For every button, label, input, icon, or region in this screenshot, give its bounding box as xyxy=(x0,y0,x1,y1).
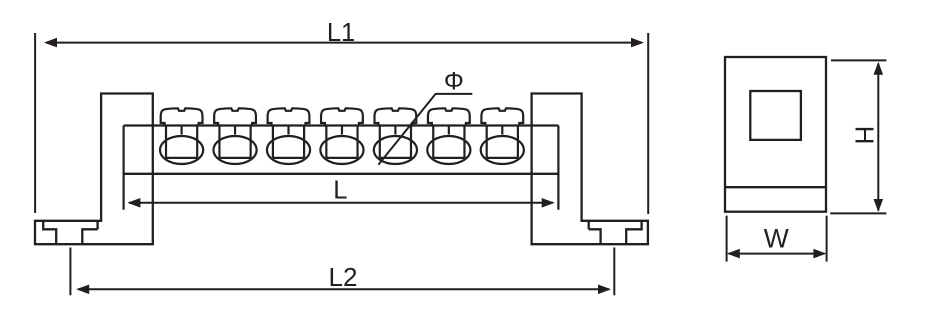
dimension line L xyxy=(127,198,554,208)
side view screw hole square xyxy=(750,91,801,140)
busbar body xyxy=(124,126,559,174)
dimension line L1 xyxy=(44,38,644,48)
svg-text:L: L xyxy=(333,177,347,205)
screw terminal 5 xyxy=(374,108,417,164)
dimension L2 right extension line xyxy=(613,248,615,296)
dimension line W xyxy=(727,249,827,259)
svg-text:L1: L1 xyxy=(327,19,355,47)
busbar right edge + L extension xyxy=(557,126,559,210)
busbar left edge + L extension xyxy=(122,126,124,210)
svg-text:H: H xyxy=(850,126,880,145)
svg-text:L2: L2 xyxy=(329,262,358,292)
dimension L2 left extension line xyxy=(69,248,71,296)
dimension W right extension line xyxy=(826,216,828,262)
right bracket outline xyxy=(532,94,648,245)
screw terminal 1 xyxy=(160,108,203,164)
dimension H bottom extension line xyxy=(830,212,886,214)
dimension line H xyxy=(874,62,884,212)
side view body xyxy=(725,57,826,212)
screw terminal 6 xyxy=(427,108,470,164)
svg-text:Φ: Φ xyxy=(444,68,464,96)
dimension H top extension line xyxy=(831,59,886,61)
screw terminal 7 xyxy=(481,108,524,164)
left bracket outline xyxy=(35,94,153,245)
dimension L1 left extension line xyxy=(34,33,36,213)
svg-text:W: W xyxy=(764,223,789,253)
Phi leader line xyxy=(378,94,472,165)
dimension W left extension line xyxy=(726,216,728,262)
screw terminal 4 xyxy=(320,108,363,164)
dimension L1 right extension line xyxy=(647,33,649,214)
screw terminal 2 xyxy=(213,108,256,164)
side view base line xyxy=(725,186,826,188)
screw terminal 3 xyxy=(267,108,310,164)
dimension line L2 xyxy=(76,285,611,295)
left bracket foot slot xyxy=(43,221,97,244)
right bracket foot slot xyxy=(589,221,642,244)
